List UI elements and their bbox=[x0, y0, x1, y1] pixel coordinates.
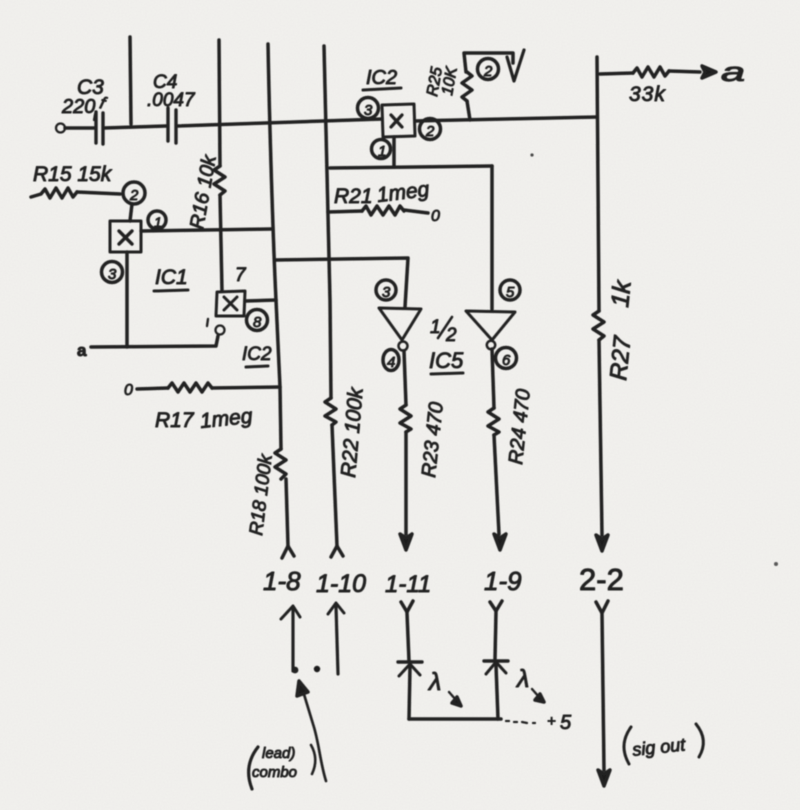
label sig out open paren bbox=[624, 727, 631, 764]
resistor R17 1meg bbox=[168, 383, 212, 392]
wire R25 branch bbox=[467, 101, 470, 120]
wire R22 to arrow 1-10 bbox=[332, 425, 337, 546]
resistor R25 bbox=[462, 72, 472, 101]
capacitor C3 bbox=[96, 112, 103, 144]
wire feedback bus horizontal bbox=[330, 166, 492, 168]
arrowhead 1-9 bbox=[494, 534, 506, 550]
resistor R15 15k bbox=[31, 188, 77, 198]
pin 8 circle IC2B bbox=[247, 310, 268, 331]
svg-text:1-9: 1-9 bbox=[484, 566, 522, 596]
wire sig out vertical bbox=[602, 614, 604, 770]
svg-text:R15 15k: R15 15k bbox=[33, 163, 113, 186]
resistor R22 100k bbox=[325, 398, 336, 425]
svg-text:+: + bbox=[547, 713, 556, 730]
pin 3 circle IC5A bbox=[376, 280, 396, 300]
label sig out close paren bbox=[696, 724, 703, 757]
wire top stub R16 branch bbox=[219, 40, 220, 166]
multiplier IC1A box bbox=[110, 221, 141, 252]
resistor R24 470 bbox=[488, 408, 499, 435]
photodiode D2 vee bbox=[486, 662, 506, 674]
svg-text:3: 3 bbox=[382, 284, 391, 301]
svg-text:IC5: IC5 bbox=[429, 348, 464, 373]
wire 0 to R17 bbox=[137, 388, 168, 389]
wire bus to 33k bbox=[600, 73, 633, 74]
wire R15 to pin2 bbox=[77, 192, 120, 194]
svg-text:8: 8 bbox=[253, 314, 262, 331]
pin 1 circle IC1A bbox=[148, 211, 166, 229]
arrowhead up 1-10 bbox=[328, 603, 344, 614]
wire right bus vertical to R27 bbox=[597, 57, 599, 311]
input mark V bbox=[507, 50, 524, 81]
pin 2 circle IC1A bbox=[123, 182, 145, 204]
tick mark near IC2B pin bbox=[207, 319, 208, 326]
speck 2 bbox=[774, 562, 778, 566]
svg-text:2: 2 bbox=[129, 187, 139, 204]
underline IC1 bbox=[154, 290, 188, 291]
arrow fork 1-10 bbox=[331, 546, 343, 557]
wire D2 down bbox=[496, 665, 498, 719]
svg-text:IC2: IC2 bbox=[242, 344, 272, 365]
wire R24 to arrow 1-9 bbox=[494, 435, 499, 534]
fraction slash bbox=[438, 317, 452, 338]
svg-text:R27: R27 bbox=[605, 333, 637, 381]
light arrow 1 bbox=[449, 692, 456, 700]
dashes to +5 bbox=[506, 721, 535, 723]
multiplier IC2B box bbox=[216, 291, 245, 316]
svg-text:λ: λ bbox=[515, 665, 529, 693]
note open paren bbox=[249, 747, 258, 789]
svg-text:IC1: IC1 bbox=[155, 266, 188, 289]
svg-text:.0047: .0047 bbox=[147, 90, 196, 111]
wire top stub vertical 1 bbox=[130, 37, 131, 124]
svg-text:3: 3 bbox=[108, 266, 117, 283]
wire R21 to node 0 bbox=[404, 210, 428, 213]
wire IC2A pin1 stub down bbox=[392, 137, 396, 167]
wire long vertical bus to R22 bbox=[324, 46, 331, 398]
underline IC2 second bbox=[246, 366, 268, 367]
resistor 33k bbox=[633, 67, 669, 77]
wire IC5B out bbox=[492, 349, 494, 408]
svg-text:R17: R17 bbox=[155, 409, 195, 432]
inverter IC5B bbox=[466, 311, 515, 340]
X symbol IC2A bbox=[391, 115, 402, 127]
wire sig out fork bbox=[596, 601, 608, 613]
svg-text:1-10: 1-10 bbox=[316, 570, 366, 598]
wire R16 to IC2B pin7 bbox=[220, 195, 222, 291]
svg-text:1: 1 bbox=[378, 143, 386, 160]
wire long vertical bus to R18 bbox=[268, 44, 281, 449]
junction dot bbox=[314, 666, 320, 672]
arrowhead to node a bbox=[702, 66, 716, 78]
note arrow curve bbox=[303, 691, 326, 781]
svg-text:2-2: 2-2 bbox=[579, 562, 624, 597]
arrow fork 1-8 bbox=[282, 546, 294, 558]
resistor R18 100k bbox=[275, 449, 286, 479]
pin 1 circle IC2A bbox=[372, 140, 391, 159]
svg-text:4: 4 bbox=[387, 354, 395, 371]
svg-text:0: 0 bbox=[431, 208, 440, 225]
svg-text:λ: λ bbox=[427, 668, 441, 696]
wire bus down to IC5B input bbox=[490, 166, 494, 309]
wire 1-9 lower fork bbox=[490, 601, 502, 611]
svg-text:6: 6 bbox=[502, 352, 511, 369]
svg-text:5: 5 bbox=[560, 712, 572, 734]
wire R27 to arrow 2-2 bbox=[599, 340, 602, 535]
bubble IC5A bbox=[399, 342, 408, 351]
arrowhead 1-11 bbox=[400, 534, 412, 550]
resistor R16 10k bbox=[214, 166, 225, 195]
svg-text:0: 0 bbox=[124, 382, 133, 399]
pin 4 circle IC5A bbox=[383, 350, 399, 371]
wire R25 top bracket bbox=[464, 53, 513, 72]
pin 5 circle IC5B bbox=[500, 280, 520, 300]
wire fork to photodiode D1 bbox=[407, 613, 409, 661]
foot 1-8 bbox=[292, 667, 299, 674]
svg-text:1: 1 bbox=[154, 214, 162, 230]
wire IC2A output to right bus bbox=[415, 117, 597, 121]
light arrow 2 head bbox=[535, 694, 544, 702]
svg-text:2: 2 bbox=[445, 325, 457, 346]
svg-text:3: 3 bbox=[364, 102, 373, 119]
wire D1 down bbox=[409, 667, 410, 719]
photodiode D1 vee bbox=[399, 664, 420, 676]
svg-text:7: 7 bbox=[235, 265, 247, 286]
speck 1 bbox=[530, 153, 533, 156]
wire IC5A out bbox=[404, 351, 406, 405]
resistor R23 470 bbox=[400, 405, 411, 432]
arrow up lower 1-10 bbox=[336, 606, 338, 674]
svg-text:220: 220 bbox=[61, 96, 95, 118]
pin 2 circle (R25 input) bbox=[478, 59, 499, 80]
wire IC1A bottom to node a bbox=[125, 252, 129, 347]
svg-text:R21: R21 bbox=[334, 185, 373, 208]
inverter IC5A bbox=[379, 308, 421, 340]
wire bus to IC5A input bbox=[276, 258, 408, 307]
pin 3 circle IC2A bbox=[358, 98, 379, 119]
wire +5 rail bbox=[409, 717, 501, 721]
arrow up lower 1-8 bbox=[291, 610, 294, 671]
note arrowhead bbox=[297, 681, 308, 696]
svg-text:1-11: 1-11 bbox=[385, 571, 431, 598]
svg-text:lead): lead) bbox=[262, 745, 295, 762]
underline IC5 bbox=[431, 373, 463, 374]
svg-text:a: a bbox=[721, 56, 745, 87]
X symbol IC2B bbox=[224, 297, 237, 310]
svg-text:1-8: 1-8 bbox=[263, 566, 301, 596]
wire IC1A output to bus bbox=[141, 229, 271, 231]
svg-text:IC2: IC2 bbox=[366, 67, 397, 89]
wire 33k to arrow bbox=[669, 71, 700, 72]
descender mark under 220pf bbox=[94, 114, 95, 120]
pin 6 circle IC5B bbox=[496, 348, 517, 369]
wire IC2B output to bus bbox=[246, 300, 276, 301]
X symbol IC1A bbox=[119, 231, 132, 244]
resistor R21 1meg bbox=[362, 206, 404, 215]
svg-text:combo: combo bbox=[252, 764, 297, 781]
svg-text:33k: 33k bbox=[629, 83, 666, 106]
wire R21 from bus bbox=[328, 211, 362, 212]
arrowhead up 1-8 bbox=[281, 606, 300, 619]
resistor R27 1k bbox=[593, 311, 604, 340]
svg-text:2: 2 bbox=[425, 123, 435, 140]
pin 3 circle IC1A bbox=[102, 262, 123, 283]
wire fork to photodiode D2 bbox=[495, 612, 496, 659]
svg-text:a: a bbox=[77, 341, 87, 360]
wire C4 to IC2A input bbox=[178, 119, 382, 126]
svg-text:2: 2 bbox=[483, 63, 493, 80]
wire pin2 to IC1A box bbox=[130, 204, 132, 221]
underline IC2 bbox=[363, 88, 401, 90]
note close paren bbox=[311, 745, 315, 774]
pin circle IC2B bottom bbox=[216, 326, 225, 335]
wire R18 to arrow 1-8 bbox=[286, 479, 288, 546]
wire a to IC2B pin bbox=[91, 336, 218, 347]
wire R17 to bus bbox=[212, 387, 280, 388]
photodiode D1 bar bbox=[398, 660, 422, 663]
wire 1-11 lower fork bbox=[401, 601, 413, 612]
wire C3 to C4 bbox=[104, 126, 166, 128]
arrowhead sig out bbox=[598, 770, 610, 786]
svg-text:5: 5 bbox=[506, 284, 515, 301]
photodiode D2 bar bbox=[484, 659, 508, 662]
node input terminal o bbox=[56, 124, 65, 133]
light arrow 2 bbox=[532, 689, 539, 697]
wire R23 to arrow 1-11 bbox=[404, 432, 408, 534]
wire o to C3 bbox=[65, 126, 94, 130]
light arrow 1 head bbox=[452, 697, 461, 706]
multiplier IC2A box bbox=[382, 104, 415, 137]
bubble IC5B bbox=[487, 341, 495, 349]
capacitor C4 bbox=[168, 108, 176, 143]
svg-text:1k: 1k bbox=[606, 278, 637, 309]
arrowhead 2-2 bbox=[596, 535, 608, 551]
pin 2 circle IC2A bbox=[420, 119, 441, 140]
